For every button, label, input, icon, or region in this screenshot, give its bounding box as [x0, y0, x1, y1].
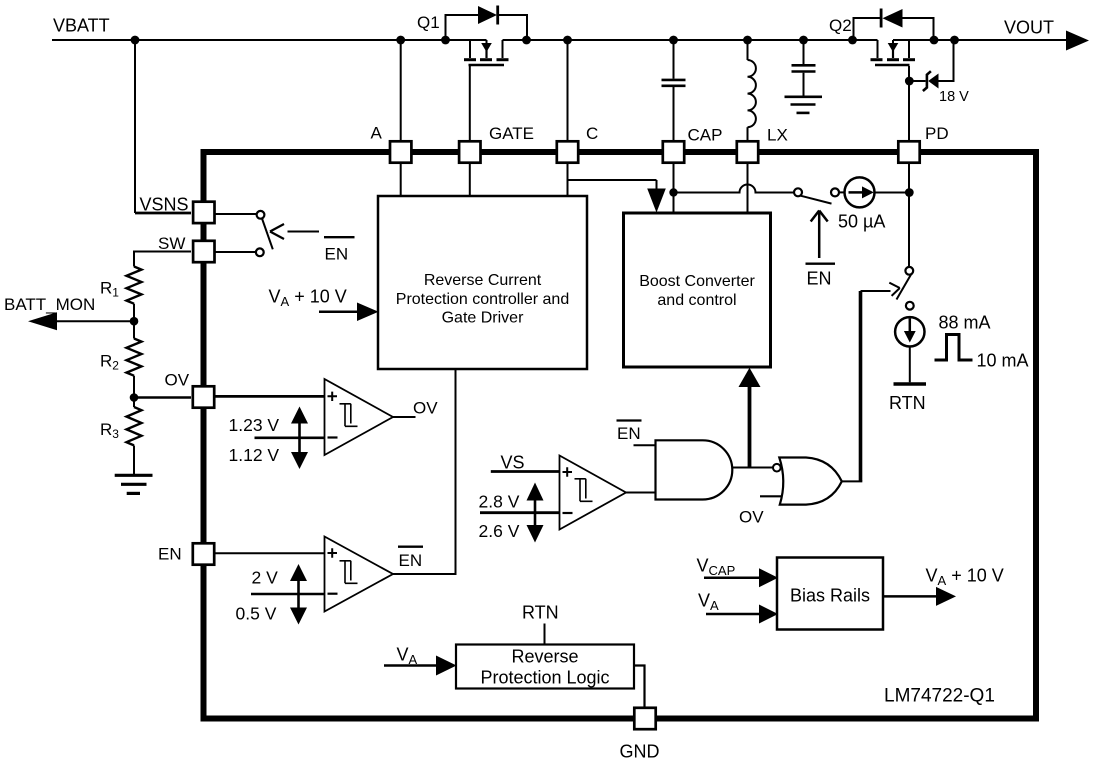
- capacitor C_out (rail to ground): [792, 40, 816, 96]
- junction PD / 50uA node: [905, 188, 914, 197]
- junction Q2 gate / zener node: [905, 77, 914, 86]
- resistor R1: [127, 267, 142, 304]
- wire node to R2: [133, 321, 135, 338]
- wire 88mA to RTN: [909, 347, 911, 383]
- junction BATT_MON node: [130, 317, 139, 326]
- net EN-bar (comparator output): [398, 546, 423, 548]
- wire VBATT rail left segment: [52, 39, 487, 41]
- diode D1 zener 18V: [909, 40, 953, 91]
- wire OV node to OV pin: [134, 396, 191, 399]
- pin LX: [737, 141, 758, 162]
- wire EN-bar to AND: [634, 444, 656, 446]
- svg-text:18 V: 18 V: [939, 89, 969, 105]
- junction Q1 anode: [441, 36, 450, 45]
- op-amp U4 EN comparator: [325, 537, 394, 612]
- junction Q1 cathode: [522, 36, 531, 45]
- pin VSNS: [193, 202, 214, 223]
- svg-text:VBATT: VBATT: [53, 16, 110, 36]
- junction Q2 right: [930, 36, 939, 45]
- IC boundary LM74722-Q1: [204, 152, 1037, 719]
- svg-text:EN: EN: [158, 545, 182, 564]
- block U2 Boost Converter and control: [624, 213, 771, 367]
- pulse waveform glyph: [935, 335, 973, 361]
- junction zener tap: [950, 36, 959, 45]
- svg-text:and control: and control: [657, 292, 736, 309]
- net OV (comparator output): [393, 416, 416, 418]
- wire 50uA to PD node: [875, 192, 910, 194]
- svg-text:Gate Driver: Gate Driver: [442, 310, 524, 327]
- pin SW: [193, 241, 214, 262]
- junction CAP tap: [669, 36, 678, 45]
- ground (output capacitor): [785, 97, 823, 113]
- wire OR output: [842, 480, 863, 482]
- wire VS comparator output to AND: [626, 492, 656, 494]
- wire node to R3: [133, 398, 135, 408]
- wire GATE pin to RCP block: [469, 141, 471, 196]
- ground (divider): [115, 475, 153, 493]
- svg-text:Protection controller and: Protection controller and: [396, 291, 569, 308]
- wire CAP node to 50uA switch (with hop over LX): [674, 185, 795, 193]
- net EN (switch S2 control): [806, 263, 836, 265]
- inductor L1 (rail to LX pin): [748, 40, 756, 140]
- wire pin A to RCP block: [400, 40, 402, 196]
- wire VS input: [491, 470, 560, 473]
- wire EN pin to comparator: [215, 552, 325, 554]
- op-amp U3 OV comparator: [325, 379, 394, 455]
- svg-text:EN: EN: [807, 269, 832, 289]
- wire AND output to boost (arrow): [739, 368, 761, 468]
- wire LX pin down to boost: [747, 164, 749, 213]
- svg-text:EN: EN: [399, 551, 423, 570]
- op-amp U5 VS comparator: [560, 456, 627, 530]
- svg-text:VS: VS: [501, 452, 525, 472]
- wire R3 to ground: [133, 446, 135, 475]
- wire OV comparator minus input: [255, 436, 325, 439]
- junction C pin tap: [563, 36, 572, 45]
- pin A: [390, 141, 411, 162]
- wire AND output: [732, 467, 773, 469]
- wire VSNS pin to switch: [215, 213, 257, 215]
- net OV (OR input): [760, 495, 782, 497]
- svg-text:1.12 V: 1.12 V: [229, 445, 280, 465]
- junction LX inductor tap: [743, 36, 752, 45]
- switch S2 (50uA enable): [794, 188, 846, 203]
- svg-text:OV: OV: [739, 508, 764, 527]
- switch S3 (pulse load): [897, 267, 914, 310]
- switch S3 control arrow from OR gate: [861, 283, 900, 296]
- svg-text:GATE: GATE: [489, 124, 534, 143]
- junction CAP node: [669, 188, 677, 196]
- pin GND: [634, 708, 655, 729]
- net VA + 10 V (RCP input): [269, 287, 379, 322]
- wire SW pin to switch: [215, 251, 256, 253]
- threshold arrows (OV comparator): [291, 407, 308, 470]
- junction Q2 left: [848, 36, 857, 45]
- wire C pin down: [567, 40, 569, 196]
- net VCAP input: [697, 556, 779, 588]
- svg-text:10 mA: 10 mA: [977, 351, 1029, 371]
- svg-text:RTN: RTN: [889, 393, 926, 413]
- block U9 Reverse Protection Logic: [456, 645, 634, 689]
- wire VBATT to VSNS: [134, 40, 136, 213]
- ground RTN bar: [894, 382, 927, 386]
- wire OR output up to switch S3: [859, 291, 863, 481]
- wire EN comparator minus input: [251, 593, 325, 596]
- pin GATE: [459, 141, 480, 162]
- current source I2 88mA: [895, 317, 924, 346]
- svg-text:Boost Converter: Boost Converter: [639, 273, 755, 290]
- switch S1 EN control arrow: [270, 224, 319, 239]
- wire boost input arrow: [656, 180, 658, 190]
- gate U7 OR with inverted input: [773, 458, 842, 505]
- svg-text:Protection Logic: Protection Logic: [480, 668, 609, 688]
- VOUT arrow: [1066, 31, 1089, 51]
- wire R2 to OV node: [133, 376, 135, 398]
- wire EN comparator output to RCP: [393, 370, 456, 574]
- svg-text:Bias Rails: Bias Rails: [790, 586, 870, 606]
- svg-text:PD: PD: [925, 124, 949, 143]
- svg-text:OV: OV: [413, 399, 438, 418]
- resistor R2: [127, 339, 142, 376]
- wire C branch to boost arrow: [568, 179, 657, 181]
- switch S1 (VSNS/SW): [256, 211, 273, 256]
- svg-text:OV: OV: [165, 371, 190, 390]
- svg-text:BATT_MON: BATT_MON: [4, 295, 95, 314]
- net EN (switch S1 control): [324, 236, 355, 238]
- svg-text:Q1: Q1: [417, 13, 440, 32]
- block U8 Bias Rails: [777, 558, 883, 630]
- wire SW to divider: [134, 252, 191, 267]
- net EN-bar (AND input): [617, 419, 642, 421]
- net VA + 10 V output: [883, 566, 1004, 606]
- block U1 Reverse Current Protection controller and Gate Driver: [378, 196, 587, 369]
- svg-text:2.6 V: 2.6 V: [479, 521, 520, 541]
- pin PD: [898, 141, 919, 162]
- svg-text:RTN: RTN: [522, 603, 559, 623]
- svg-text:SW: SW: [158, 234, 185, 253]
- svg-text:LX: LX: [767, 126, 788, 145]
- pin C: [557, 141, 578, 162]
- transistor Q2 NMOS: [871, 40, 916, 81]
- svg-text:VA + 10 V: VA + 10 V: [269, 287, 347, 310]
- svg-text:EN: EN: [325, 245, 349, 264]
- junction pin A tap: [396, 36, 405, 45]
- net VA (RPL input): [384, 645, 457, 676]
- current source I1 50uA: [845, 177, 875, 207]
- gate U6 AND: [656, 440, 733, 499]
- svg-text:1.23 V: 1.23 V: [229, 415, 280, 435]
- wire OV pin to comparator: [215, 395, 325, 398]
- svg-text:50 µA: 50 µA: [838, 212, 885, 232]
- wire R1 to node: [133, 304, 135, 322]
- svg-text:GND: GND: [620, 742, 660, 762]
- pin OV: [193, 386, 214, 407]
- wire RPL to GND pin: [634, 666, 645, 707]
- wire VS comparator minus input: [480, 511, 560, 514]
- junction VBATT sense tap: [131, 36, 140, 45]
- svg-text:2 V: 2 V: [252, 568, 279, 588]
- pin CAP: [663, 141, 684, 162]
- threshold arrows (VS comparator): [527, 483, 544, 543]
- svg-text:C: C: [586, 124, 598, 143]
- svg-text:Reverse Current: Reverse Current: [424, 272, 542, 289]
- pin EN: [193, 543, 214, 564]
- junction OV node: [130, 393, 139, 402]
- wire PD pin chain: [908, 81, 910, 140]
- capacitor C_cap (rail to CAP pin): [662, 40, 686, 140]
- wire CAP pin down: [673, 164, 675, 213]
- switch S2 EN control arrow: [811, 211, 828, 259]
- resistor R3: [127, 407, 142, 445]
- svg-text:Q2: Q2: [829, 16, 852, 35]
- svg-text:Reverse: Reverse: [511, 647, 578, 667]
- svg-text:88 mA: 88 mA: [939, 313, 991, 333]
- svg-text:LM74722-Q1: LM74722-Q1: [884, 686, 995, 707]
- svg-text:CAP: CAP: [688, 126, 723, 145]
- svg-text:2.8 V: 2.8 V: [479, 492, 520, 512]
- wire rail middle segment (Q1 cathode to Q2 source): [503, 39, 878, 41]
- net VA input: [698, 591, 778, 624]
- svg-text:VA + 10 V: VA + 10 V: [926, 566, 1004, 589]
- junction output capacitor tap: [799, 36, 808, 45]
- svg-text:0.5 V: 0.5 V: [236, 604, 277, 624]
- diode Q2 body diode loop: [854, 9, 934, 41]
- svg-text:VOUT: VOUT: [1004, 18, 1054, 38]
- transistor Q1 NMOS: [464, 40, 509, 141]
- svg-text:EN: EN: [617, 424, 641, 443]
- svg-text:A: A: [371, 124, 383, 143]
- diode Q1 body diode loop: [446, 6, 528, 41]
- threshold arrows (EN comparator): [290, 564, 307, 625]
- svg-text:VSNS: VSNS: [140, 195, 189, 215]
- wire rail right segment to VOUT: [893, 39, 1067, 41]
